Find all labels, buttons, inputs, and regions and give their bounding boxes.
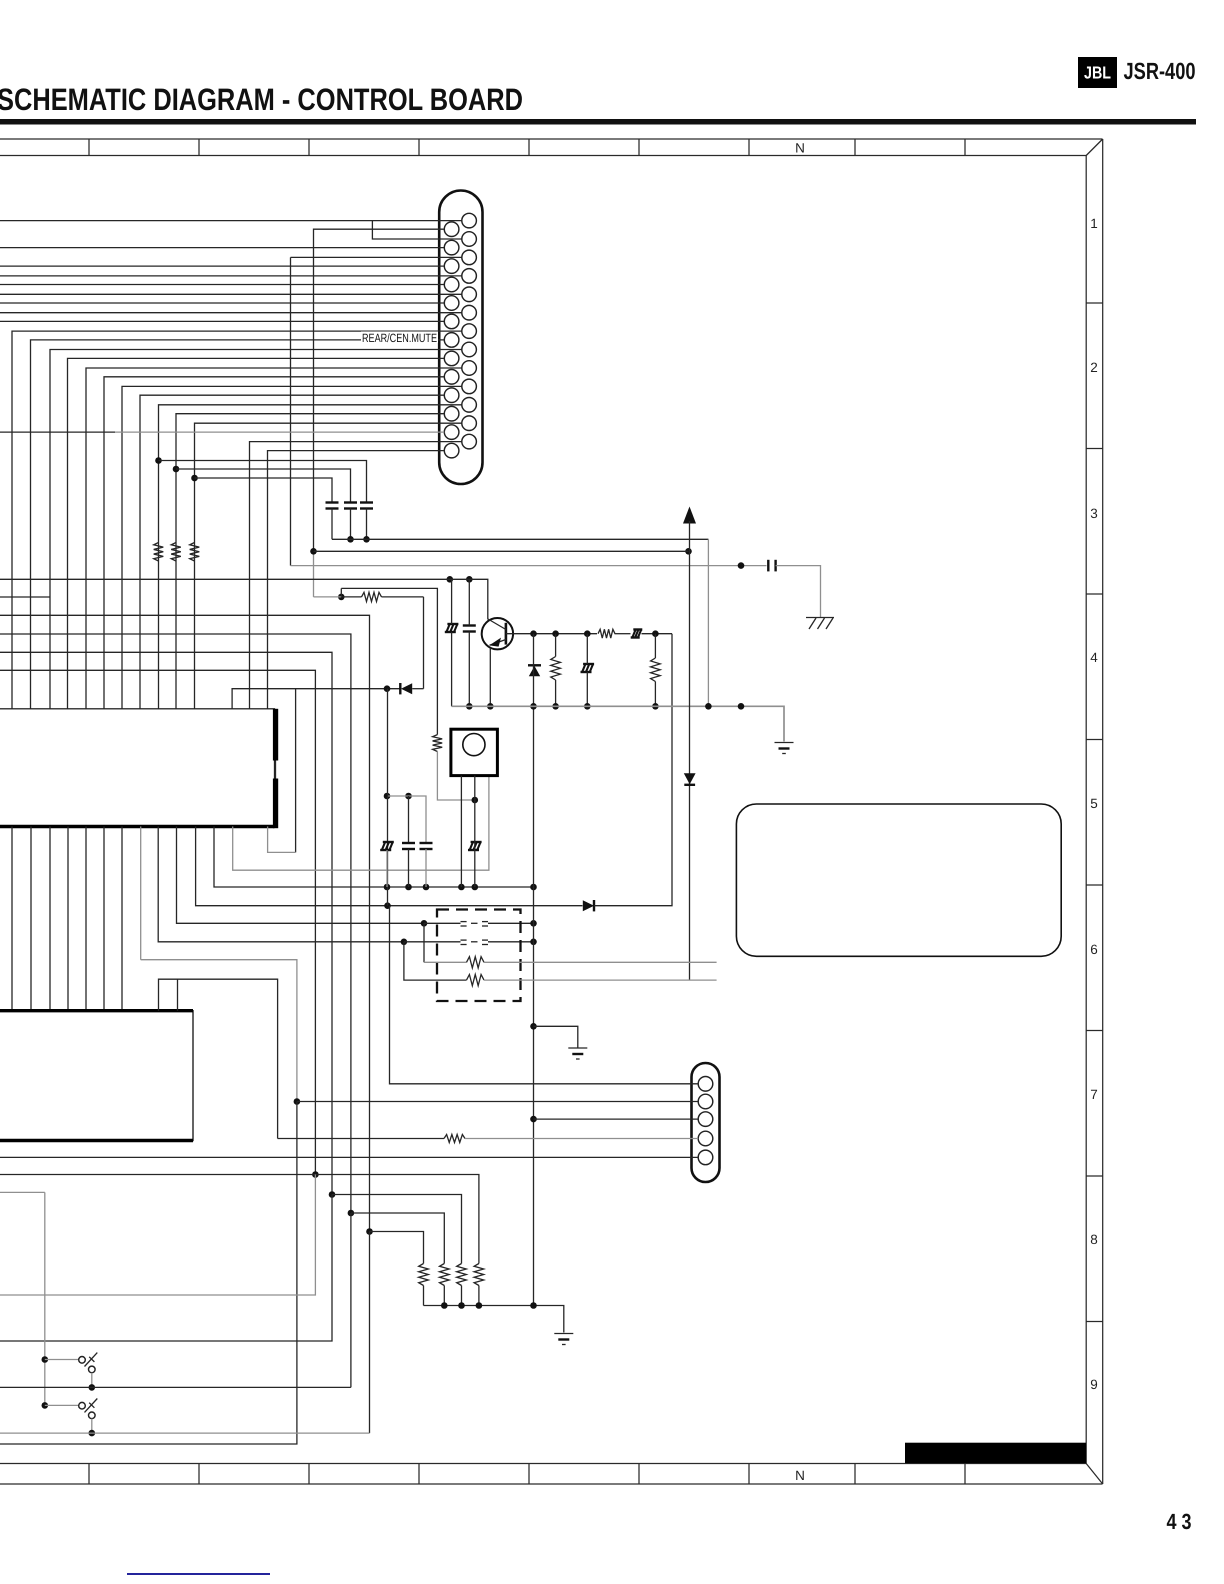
ferrite bead hatch y633.7 <box>631 630 643 638</box>
junction dot x387 y887 <box>384 884 391 891</box>
wire x655.4 segments <box>654 634 656 707</box>
wire CN1 L12 from left edge <box>0 431 444 433</box>
capacitor series C y565.6 <box>768 560 775 572</box>
wire bus y615.3 cascade x369.5 <box>0 615 370 1231</box>
junction dot x708.4 y706.3 <box>705 703 712 710</box>
junction dot x474.8 y800 <box>472 797 479 804</box>
switch SW2 <box>45 1399 98 1434</box>
capacitor x408.5 y843 <box>402 843 415 849</box>
wire CN1 L13 corner x267.5 to IC1 <box>268 451 445 709</box>
wire to CN1 pin L3 <box>0 265 444 267</box>
wire to CN1 pin R5 <box>0 293 462 295</box>
junction dot x408.5 y796 <box>405 793 412 800</box>
resistor on x158.5 <box>154 543 164 562</box>
junction dot x490.3 y706.3 <box>487 703 494 710</box>
junction dot x341.3 y596.9 <box>338 594 345 601</box>
wire gray y980.1 out <box>484 979 717 981</box>
IC U2 box with circle <box>451 729 498 775</box>
junction dot x444.3 y1305.5 <box>441 1302 448 1309</box>
junction dot x387 y796 <box>384 793 391 800</box>
junction dot x387.5 y905.7 <box>384 902 391 909</box>
junction dot x315.4 y1174.5 <box>312 1171 319 1178</box>
wire y1213 <box>351 1213 444 1264</box>
wire to ground G1 <box>534 1026 578 1047</box>
wire x426 cap lower <box>425 849 427 887</box>
junction dot x461.4 y887 <box>458 884 465 891</box>
resistor on x176 <box>171 543 181 562</box>
wire x408.5 cap lower <box>408 849 410 887</box>
junction dot x533.5 y706.3 <box>530 703 537 710</box>
wire y941.8 cont <box>404 941 534 943</box>
wire x587.3 segments <box>586 634 588 707</box>
wire x332 lower to left <box>0 1195 332 1342</box>
label REAR/CEN.MUTE <box>361 331 438 345</box>
resistor R base y633.7 <box>598 629 615 638</box>
frame top band ticks <box>89 139 965 156</box>
junction dot x555.6 y706.3 <box>552 703 559 710</box>
junction dot x91.8 y1433.1 <box>89 1430 96 1437</box>
wire CN1 R10 corner to IC1 pin x122.0 <box>122 386 462 708</box>
junction dot x350.5 y539.3 <box>347 536 354 543</box>
wire to CN1 pin L4 <box>0 284 444 286</box>
svg-text:1: 1 <box>1090 216 1098 231</box>
resistor R x461.5 <box>457 1264 467 1286</box>
svg-text:5: 5 <box>1090 796 1098 811</box>
signal ground G2 <box>775 743 794 754</box>
frame right band row dividers <box>1086 303 1103 1322</box>
U2 pin1 x461.4 <box>460 776 462 887</box>
connector CN1 right pin circles <box>462 213 477 449</box>
capacitor x469.3 y625 <box>463 626 476 632</box>
wire CN1 L1 via vertical x313.5 <box>314 229 445 551</box>
junction dot x555.6 y633.7 <box>552 630 559 637</box>
svg-text:N: N <box>795 1468 805 1483</box>
IC1 pin x68 to IC2 <box>67 827 69 1011</box>
IC1 pin x50 to IC2 <box>49 827 51 1011</box>
junction dot x408.5 y887 <box>405 884 412 891</box>
junction dot x533.5 y633.7 <box>530 630 537 637</box>
wire y923.3 cont <box>424 922 534 924</box>
JBL logo <box>1078 57 1117 88</box>
wire x387 hatch stubs <box>386 850 388 887</box>
wire CN2 pin3 <box>534 1118 699 1120</box>
wire y1174.5 <box>0 1175 479 1264</box>
svg-text:REAR/CEN.MUTE: REAR/CEN.MUTE <box>362 331 437 345</box>
wire x296.9 lower to left edge <box>0 1102 297 1445</box>
resistor on x194.5 <box>190 543 200 562</box>
wire bus y551.3 <box>314 550 689 552</box>
svg-text:4: 4 <box>1090 650 1098 665</box>
wire x451.6 segments <box>451 579 453 706</box>
junction dot x533.5 y1026.3 <box>530 1023 537 1030</box>
wire x315.4 lower to left gray <box>0 1175 315 1296</box>
wire bus y634 cascade x350.9 <box>0 634 351 1213</box>
wire gray x313.5 corner to y596.9 <box>314 596 342 598</box>
junction dot x366.5 y539.3 <box>363 536 370 543</box>
gray rail y706.3 <box>452 706 784 741</box>
wire D2 to corner x672 up to base line <box>594 634 672 906</box>
border frame outer <box>0 139 1103 1484</box>
wire CN1 R3 from vertical x290.5 <box>291 256 462 258</box>
IC1 pin x122 to IC2 <box>121 827 123 1011</box>
wire bus y539.3 <box>332 538 708 540</box>
tap dot x158.5 y460.5 <box>155 457 162 464</box>
IC2 pin x177.5 T <box>177 979 179 1011</box>
wire CN1 R8 corner x50 to IC1 <box>50 350 462 709</box>
wire cap x366.5 lower <box>366 509 368 540</box>
hatch cap x387 y842 <box>380 842 394 850</box>
IC U3 box <box>0 1011 193 1141</box>
frame right band row numbers 1-9 <box>1090 216 1098 1392</box>
wire CN1 R12 corner to IC1 pin x194.5 <box>195 423 462 709</box>
wire x469.3 segments <box>468 579 470 706</box>
wire to CN1 pin R6 <box>0 312 462 314</box>
wire to CN1 pin L6 <box>0 320 444 322</box>
wire diode row y688.7 left <box>232 689 400 709</box>
VCC up arrow <box>683 507 696 524</box>
resistor R y596.9 <box>362 592 382 601</box>
svg-text:JBL: JBL <box>1084 63 1111 83</box>
IC1 pin x12 to IC2 <box>11 827 13 1011</box>
wire x423.5 down to diode row <box>423 597 425 689</box>
wire CN2 pin4 with resistor <box>278 1135 699 1143</box>
wire gray y565.6 chassis branch <box>291 565 767 567</box>
junction dot x741 y706.3 <box>738 703 745 710</box>
jumper J1 y923.3 <box>461 922 489 926</box>
wire switch line y1433.1 gray <box>0 1432 370 1434</box>
wire switch line y1387.4 <box>0 1386 351 1388</box>
wire y1231.5 <box>370 1232 424 1264</box>
resistor R dashed y980.1 <box>467 975 485 986</box>
junction dot x474.8 y887 <box>472 884 479 891</box>
wire switch feed vertical x44.8 <box>44 1192 46 1405</box>
IC1 gray pin x232.7 to U2 pin3 <box>233 776 489 871</box>
hatch cap x451.6 y624 <box>445 624 459 632</box>
wire CN1 L10 corner to IC1 pin x140.0 <box>140 395 444 709</box>
junction dot x387 y688.7 <box>384 685 391 692</box>
vertical x533.5 main bus <box>533 634 535 1306</box>
IC1 gray pin x267.6 jog <box>268 827 296 853</box>
signal ground G1 <box>568 1048 587 1059</box>
junction dot x350.9 y1213 <box>348 1210 355 1217</box>
jumper J2 y941.8 <box>461 940 489 944</box>
U2 pin2 x474.8 <box>474 776 476 887</box>
capacitor C x350.5 <box>344 503 357 509</box>
svg-text:6: 6 <box>1090 942 1098 957</box>
diode D1 left-pointing <box>400 683 412 694</box>
wire R x437.4 lower gray <box>437 752 474 801</box>
IC1 pin x195.6 fan y905.7 diode row 2 <box>196 827 583 906</box>
diode D3 up on x533.5 <box>528 665 541 676</box>
title rule <box>0 119 1196 125</box>
resistor R dashed y962.3 <box>467 957 485 968</box>
junction dot x296.9 y1101.5 <box>294 1098 301 1105</box>
wire CN2 pin2 <box>297 1101 698 1103</box>
switch SW1 <box>45 1353 98 1388</box>
junction dot x587.3 y706.3 <box>584 703 591 710</box>
resistor R x655.4 <box>651 658 661 682</box>
vertical x295.6 T from diode row <box>295 689 297 853</box>
frame corner diagonals <box>1086 139 1103 1484</box>
wire CN1 R9 corner to IC1 pin x86.0 <box>86 368 462 709</box>
wire bus y670.3 cascade x315.4 <box>0 670 315 1174</box>
wire CN1 R11 corner to IC1 pin x158.5 <box>159 405 462 709</box>
IC1 pin x31 to IC2 <box>30 827 32 1011</box>
Q1 base wire y633.7 <box>506 633 597 635</box>
junction dot x313.5 y551.3 <box>310 548 317 555</box>
wire CN2 pin1 <box>390 906 699 1084</box>
svg-text:2: 2 <box>1090 360 1098 375</box>
IC1 pin x104 to IC2 <box>103 827 105 1011</box>
IC U1 box <box>0 709 275 827</box>
black revision block <box>905 1443 1086 1464</box>
wire base line bead segs <box>615 633 673 635</box>
wire diode D1 to corner x423.5 <box>412 688 423 690</box>
wire bus y652.3 cascade x332 <box>0 652 332 1194</box>
capacitor x426 y843 <box>420 843 433 849</box>
wire tap y460.5 to cap x366.5 <box>159 461 367 503</box>
signal ground G3 <box>554 1334 573 1345</box>
wire bus y579.3 collector feed <box>0 579 488 619</box>
diode D4 down on x689.5 <box>684 773 696 785</box>
wire CN2 pin5 <box>0 1156 698 1158</box>
wire y588.4 segment <box>341 588 437 734</box>
wire gray y796 <box>387 796 426 843</box>
vertical x387 diode row to caps row <box>387 689 389 906</box>
wire gray stub y1192.4 to switch vertical <box>0 1191 45 1193</box>
vertical x408.5 y796 down <box>408 796 410 843</box>
wire cap x332 lower <box>331 509 333 540</box>
IC1 pin x176.5 fan y923.3 <box>177 827 425 924</box>
junction dot x469.3 y706.3 <box>466 703 473 710</box>
wire to CN1 pin L2 <box>0 247 444 249</box>
wire CN1 R13 corner x249.5 to IC1 <box>250 442 462 709</box>
wire to CN1 pin R4 <box>0 275 462 277</box>
wire resistor tails <box>424 1286 479 1306</box>
ground rail y1305.5 <box>424 1306 564 1333</box>
vertical bus x290.5 <box>290 257 292 565</box>
hatch cap x587.3 y664 <box>581 664 595 672</box>
wire x350.9 lower to switch line <box>350 1213 352 1387</box>
svg-text:4 3: 4 3 <box>1167 1509 1192 1534</box>
IC U1 right edge thick bars <box>273 709 278 828</box>
connector CN1 left pin circles <box>444 222 459 458</box>
wire cap x350.5 lower <box>350 509 352 540</box>
resistor R x478.9 <box>474 1264 484 1286</box>
IC1 pin x214 fan y887 caps row <box>214 827 534 888</box>
dashed option box <box>437 910 521 1002</box>
tap dot x176 y469 <box>173 466 180 473</box>
wire x369.5 lower to switch line <box>369 1232 371 1434</box>
connector CN2 body <box>692 1063 720 1182</box>
junction dot x533.5 y941.8 <box>530 939 537 946</box>
wire x708.4 gray drop to rail <box>707 539 709 706</box>
junction dot x688.5 y551.3 <box>685 548 692 555</box>
resistor R x423.5 <box>419 1264 429 1286</box>
resistor R x437.4 <box>433 735 443 752</box>
junction dot x587.3 y633.7 <box>584 630 591 637</box>
junction dot x478.9 y1305.5 <box>476 1302 483 1309</box>
junction dot x449.8 y579.3 <box>447 576 454 583</box>
junction dot x403.9 y941.8 <box>401 939 408 946</box>
wire resistor feed x403.9 <box>404 942 467 980</box>
IC1 pin x158.2 fan y941.8 <box>158 827 404 942</box>
connector CN1 body <box>439 191 482 485</box>
junction dot x426 y887 <box>423 884 430 891</box>
tap dot x194.5 y478 <box>191 475 198 482</box>
svg-text:3: 3 <box>1090 506 1098 521</box>
resistor R x444.3 <box>440 1264 450 1286</box>
wire to CN1 pin R1 <box>0 220 462 222</box>
border frame inner <box>0 156 1086 1464</box>
wire CN1 L7 corner to IC1 pin x30.5 <box>31 340 445 709</box>
resistor R x555.6 <box>551 657 561 681</box>
link rule bottom-left <box>127 1573 270 1575</box>
chassis ground symbol <box>806 618 834 630</box>
IC2 pins jog path y979.2 <box>159 979 278 1138</box>
wire CN1 R2 via vertical x372.4 <box>372 221 461 239</box>
wire x555.6 segments <box>555 634 557 707</box>
wire cap to chassis ground <box>776 566 821 618</box>
junction dot x741 y565.6 <box>738 562 745 569</box>
junction dot x44.8 y1405.4 <box>42 1402 49 1409</box>
wire y1194.5 <box>332 1195 462 1264</box>
wire CN1 L8 corner to IC1 pin x67.5 <box>68 358 445 708</box>
junction dot x533.5 y887 <box>530 884 537 891</box>
IC1 pin x86 to IC2 <box>85 827 87 1011</box>
junction dot x533.5 y1305.5 <box>530 1302 537 1309</box>
wire gray y962.3 out <box>484 961 717 963</box>
svg-text:9: 9 <box>1090 1377 1098 1392</box>
wire gray x313.5 lower segment <box>313 551 315 597</box>
svg-text:SCHEMATIC DIAGRAM - CONTROL BO: SCHEMATIC DIAGRAM - CONTROL BOARD <box>0 82 523 117</box>
junction dot x44.8 y1359.5 <box>42 1356 49 1363</box>
vertical x689.5 arrow bus <box>689 521 691 980</box>
junction dot x655.4 y706.3 <box>652 703 659 710</box>
hatch cap x474.8 y842 <box>468 842 482 850</box>
wire CN1 R7 corner to IC1 pin x12.0 <box>12 331 462 709</box>
Q1 emitter wire <box>489 648 491 706</box>
junction dot x469.3 y579.3 <box>466 576 473 583</box>
wire tap y469 to cap x350.5 <box>176 469 351 502</box>
IC1 gray pin x140.7 to corner path <box>141 827 297 1102</box>
junction dot x533.5 y923.3 <box>530 920 537 927</box>
svg-text:JSR-400: JSR-400 <box>1124 58 1196 84</box>
svg-text:8: 8 <box>1090 1232 1098 1247</box>
wire CN1 L11 corner to IC1 pin x176.0 <box>176 414 444 709</box>
junction dot x369.5 y1231.5 <box>366 1228 373 1235</box>
empty note box <box>736 804 1061 956</box>
svg-text:7: 7 <box>1090 1087 1098 1102</box>
junction dot x424 y923.3 <box>421 920 428 927</box>
connector CN2 pin circles <box>698 1077 713 1165</box>
junction dot x533.5 y1119.1 <box>530 1116 537 1123</box>
junction dot x461.5 y1305.5 <box>458 1302 465 1309</box>
frame bottom band ticks <box>89 1464 965 1485</box>
wire resistor feed x424 <box>424 923 467 962</box>
junction dot x655.4 y633.7 <box>652 630 659 637</box>
wire CN1 L9 corner to IC1 pin x104.0 <box>104 377 444 709</box>
diode D2 right-pointing <box>583 900 594 911</box>
capacitor C x366.5 <box>360 503 373 509</box>
transistor Q1 <box>482 618 513 649</box>
wire to CN1 pin L5 <box>0 302 444 304</box>
wire tap y478 to cap x332 <box>195 478 333 502</box>
wire left edge y597 to x50 vertical <box>0 596 50 598</box>
junction dot x91.8 y1387.4 <box>89 1384 96 1391</box>
wire y596.9 segments <box>341 596 423 598</box>
capacitor C x332 <box>326 503 339 509</box>
wire x341.3 stub <box>340 588 342 597</box>
svg-text:N: N <box>795 141 805 156</box>
junction dot x332 y1194.5 <box>329 1191 336 1198</box>
